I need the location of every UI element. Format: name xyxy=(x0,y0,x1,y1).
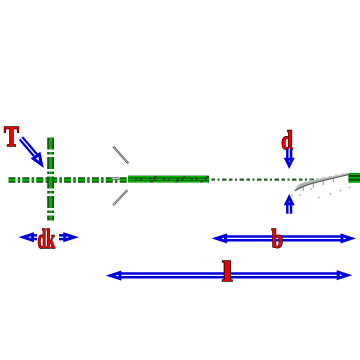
label d xyxy=(281,127,293,156)
optical axis (horizontal dash-dot centerline, left part) xyxy=(9,177,129,182)
dk dimension left arrow xyxy=(23,234,37,240)
b dimension line xyxy=(216,235,351,241)
break mark axis blob xyxy=(112,177,120,180)
label l xyxy=(222,256,232,288)
right edge triple green lines xyxy=(348,173,360,183)
ray bundle band (axis + two rays nearly merged) xyxy=(128,176,210,183)
svg-text:b: b xyxy=(272,226,284,255)
d dimension upper arrow (pointing down) xyxy=(286,149,292,166)
label dk xyxy=(38,224,56,254)
l dimension line xyxy=(111,272,348,278)
break mark upper diagonal xyxy=(113,147,128,164)
label T xyxy=(4,122,19,153)
d dimension lower arrow (pointing up) xyxy=(286,197,292,213)
label b xyxy=(272,226,284,255)
axis faint dotted continuation toward focus xyxy=(212,179,324,181)
svg-text:l: l xyxy=(222,256,232,288)
mirror hatching ticks xyxy=(303,179,334,191)
arrow from T to object line xyxy=(21,138,42,164)
vertical dash-dot object line xyxy=(47,138,54,221)
svg-text:T: T xyxy=(4,122,19,153)
dk dimension right arrow xyxy=(59,234,74,240)
break mark lower diagonal xyxy=(113,190,127,205)
svg-text:dk: dk xyxy=(38,224,56,254)
curved mirror blade xyxy=(295,173,349,191)
mirror hatch dots xyxy=(291,187,350,199)
